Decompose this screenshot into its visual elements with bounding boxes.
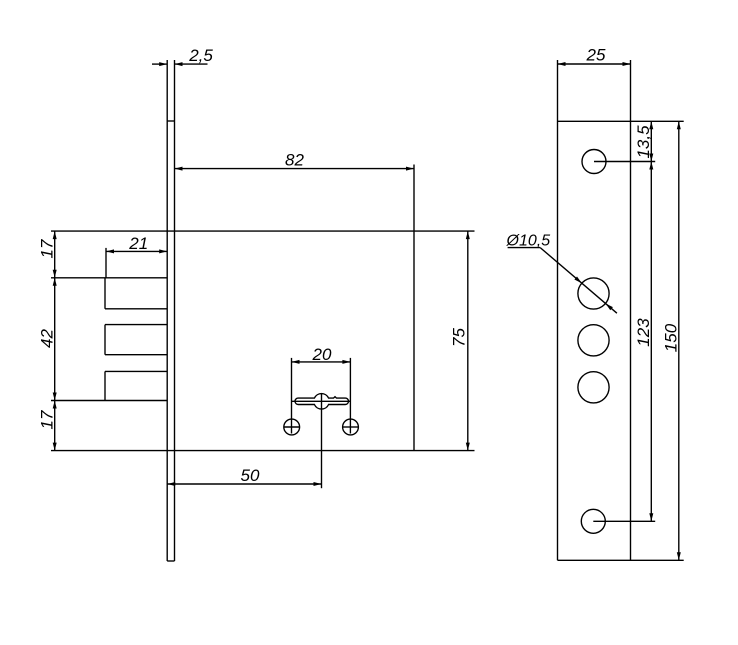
diameter leader arrows: [574, 277, 613, 311]
key cam / spindle outline: [295, 394, 349, 410]
dimension 13,5 line and arrows: [649, 121, 653, 161]
dimension 17 top label: [37, 239, 56, 258]
fixing screw right: [343, 419, 359, 435]
svg-text:17: 17: [37, 239, 56, 258]
diameter leader line O10,5: [508, 248, 617, 314]
dimension 2,5 line and arrows: [152, 62, 208, 66]
dimension 21 line and arrows: [106, 249, 167, 253]
svg-text:123: 123: [634, 318, 653, 347]
dimension 150 label: [661, 323, 680, 352]
front plate right edge (with extension above): [630, 60, 632, 560]
dimension 42 label: [37, 329, 56, 348]
front plate bottom edge + extension right: [558, 559, 684, 561]
bottom hole center extension line: [593, 520, 655, 522]
dimension 20 left extension / screw centerline: [291, 358, 293, 434]
front plate left edge (with extension above): [557, 60, 559, 560]
faceplate side view (right edge + extension): [174, 60, 176, 561]
lock case top line (also extension line): [51, 230, 475, 232]
diameter label O10,5: [506, 233, 551, 250]
dimension 50 line and arrows: [167, 482, 321, 486]
dimension 13,5 label: [634, 125, 653, 159]
dimension 75 label: [449, 328, 468, 347]
dimension 20 right extension / screw centerline: [349, 358, 351, 434]
dimension 20 label: [312, 345, 332, 364]
svg-text:42: 42: [37, 329, 56, 348]
large hole 3: [578, 372, 609, 403]
svg-text:75: 75: [449, 328, 468, 347]
dimension 25 label: [586, 46, 606, 65]
left dimension chain line: [54, 231, 56, 451]
front plate top edge + extension right: [558, 120, 684, 122]
bolt 2 (middle deadbolt): [105, 325, 167, 355]
dimension 123 label: [634, 318, 653, 347]
faceplate side view (left edge + extension): [166, 60, 168, 561]
cam horizontal centerline: [292, 400, 351, 402]
dimension 21 label: [128, 234, 148, 253]
dimension 82 label: [285, 150, 304, 169]
dimension 123 line and arrows: [649, 162, 653, 522]
svg-text:13,5: 13,5: [634, 125, 653, 159]
lock case right edge (with extension above): [413, 165, 415, 451]
dimension 17 bottom label: [37, 410, 56, 429]
dimension 82 line and arrows: [175, 167, 415, 171]
bottom screw hole: [581, 509, 605, 533]
large hole 1 (O10,5): [578, 278, 609, 309]
svg-text:20: 20: [312, 345, 332, 364]
bolt 3 (bottom deadbolt): [51, 371, 167, 400]
svg-text:Ø10,5: Ø10,5: [506, 233, 551, 250]
dimension 150 line and arrows: [677, 121, 681, 560]
dimension 25 line and arrows: [558, 62, 631, 66]
dimension 20 line and arrows: [292, 360, 351, 364]
svg-text:21: 21: [128, 234, 148, 253]
dimension 50 label: [241, 466, 260, 485]
svg-text:2,5: 2,5: [188, 46, 213, 65]
svg-text:25: 25: [586, 46, 606, 65]
cam vertical centerline down to 50-dim: [321, 394, 323, 489]
svg-text:50: 50: [241, 466, 260, 485]
left chain arrows: [53, 231, 57, 451]
faceplate bottom edge (side view): [167, 560, 174, 562]
svg-text:17: 17: [37, 410, 56, 429]
bolt 1 (top deadbolt): [51, 278, 167, 309]
lock case bottom line (also extension line): [51, 450, 475, 452]
top screw hole: [582, 150, 606, 174]
top hole center extension line: [594, 161, 655, 163]
dimension 2,5 label: [188, 46, 213, 65]
fixing screw left: [284, 419, 300, 435]
dimension 21 extension line: [105, 248, 107, 278]
svg-text:82: 82: [285, 150, 304, 169]
svg-text:150: 150: [661, 323, 680, 352]
faceplate top edge (side view): [167, 120, 174, 122]
large hole 2: [578, 325, 609, 356]
dimension 75 line and arrows: [466, 231, 470, 451]
